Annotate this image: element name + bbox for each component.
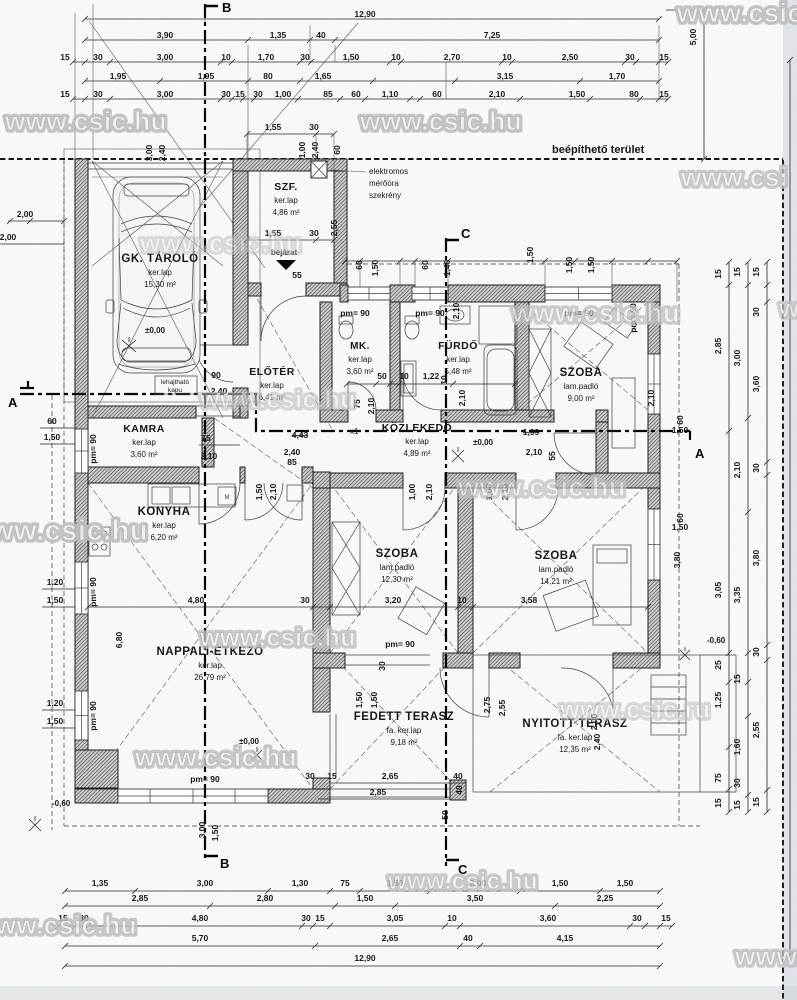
szf east wall xyxy=(334,171,347,284)
opening eloter-nappali double xyxy=(244,483,246,520)
east windows xyxy=(648,354,660,414)
roof hip diagonals garage (drawn later) xyxy=(89,21,358,268)
toilet furdo xyxy=(405,321,419,339)
roof diagonals nappali xyxy=(88,483,313,789)
desk top szoba xyxy=(564,322,613,369)
shower xyxy=(479,306,517,344)
living south wall xyxy=(75,789,118,803)
bed right szoba xyxy=(593,545,631,625)
door terasz1 xyxy=(488,668,490,717)
corridor north wall (bath row south) y410 xyxy=(320,410,348,422)
main north wall xyxy=(340,285,348,302)
watermarks xyxy=(676,0,797,28)
stove xyxy=(89,527,110,556)
szf south wall xyxy=(248,283,261,296)
washbasin xyxy=(440,306,470,324)
nyitott terasz steps xyxy=(651,675,686,735)
roof diagonals nyitott terasz xyxy=(490,653,660,792)
garage door opening xyxy=(88,163,233,169)
bed top szoba xyxy=(612,378,635,448)
north windows xyxy=(348,287,390,300)
mk dims row xyxy=(347,383,515,385)
door mk xyxy=(347,382,349,410)
door furdo xyxy=(402,372,404,410)
top dimension rows xyxy=(85,18,659,20)
terasz posts xyxy=(313,778,330,800)
south wall of szoba row xyxy=(313,653,345,668)
5,00 vertical dim xyxy=(703,10,705,159)
south window living xyxy=(118,789,268,803)
szoba divider wall xyxy=(458,488,473,653)
right dimension columns xyxy=(728,262,730,812)
wardrobe middle szoba xyxy=(332,522,360,615)
glass door szoba-terasz xyxy=(345,655,430,665)
eaves overhang outline xyxy=(64,159,700,826)
kitchen counter xyxy=(148,484,235,507)
west wall xyxy=(75,159,88,800)
garage ramp opening xyxy=(155,376,197,394)
section line C vertical xyxy=(445,238,447,866)
left guide dashed xyxy=(51,395,53,830)
garage east wall xyxy=(233,171,248,345)
north wall garage+szf xyxy=(233,159,347,171)
big horizontal wall y467 xyxy=(88,467,199,483)
garage roof X xyxy=(92,161,223,418)
elec box xyxy=(311,161,327,178)
car in garage xyxy=(106,177,207,373)
east wall xyxy=(648,302,660,354)
roof diagonals top szoba xyxy=(520,302,648,410)
corridor south wall y473 xyxy=(313,472,330,488)
roof diagonals right szoba xyxy=(473,483,648,653)
guide verticals windows xyxy=(360,261,677,302)
diagonal elterrace xyxy=(214,283,333,488)
mk machines xyxy=(401,361,416,396)
door middle szoba xyxy=(402,488,404,530)
door kitchen xyxy=(198,483,200,524)
garage cross mark xyxy=(122,337,136,352)
north window dim row xyxy=(345,260,677,262)
door eloter-garage xyxy=(196,344,233,346)
bath internal walls xyxy=(320,302,332,410)
beepitheto terulet boundary xyxy=(0,158,783,160)
nappali east wall xyxy=(313,668,330,712)
toilet mk xyxy=(339,321,353,339)
roof diagonals middle szoba xyxy=(330,483,458,653)
middle szoba west wall xyxy=(313,488,330,653)
kamra east wall xyxy=(202,418,214,467)
section line A horizontal xyxy=(20,394,690,431)
door right szoba xyxy=(515,488,517,530)
roof diagonals fedett terasz xyxy=(330,653,458,789)
section line B vertical xyxy=(204,4,206,862)
terasz south edge lines xyxy=(330,789,450,797)
bottom dimension rows xyxy=(65,890,660,892)
entrance door xyxy=(260,296,262,341)
door terasz2 xyxy=(612,668,614,708)
desk middle szoba xyxy=(398,587,445,635)
west wall windows xyxy=(75,429,88,473)
garage south wall xyxy=(88,406,196,418)
bottom left corner foot xyxy=(75,750,118,788)
bathtub xyxy=(484,345,517,415)
door top szoba xyxy=(554,432,596,434)
photo edge tint xyxy=(783,0,797,1000)
nyitott terasz outline xyxy=(473,655,700,792)
wardrobe top szoba xyxy=(529,329,551,417)
